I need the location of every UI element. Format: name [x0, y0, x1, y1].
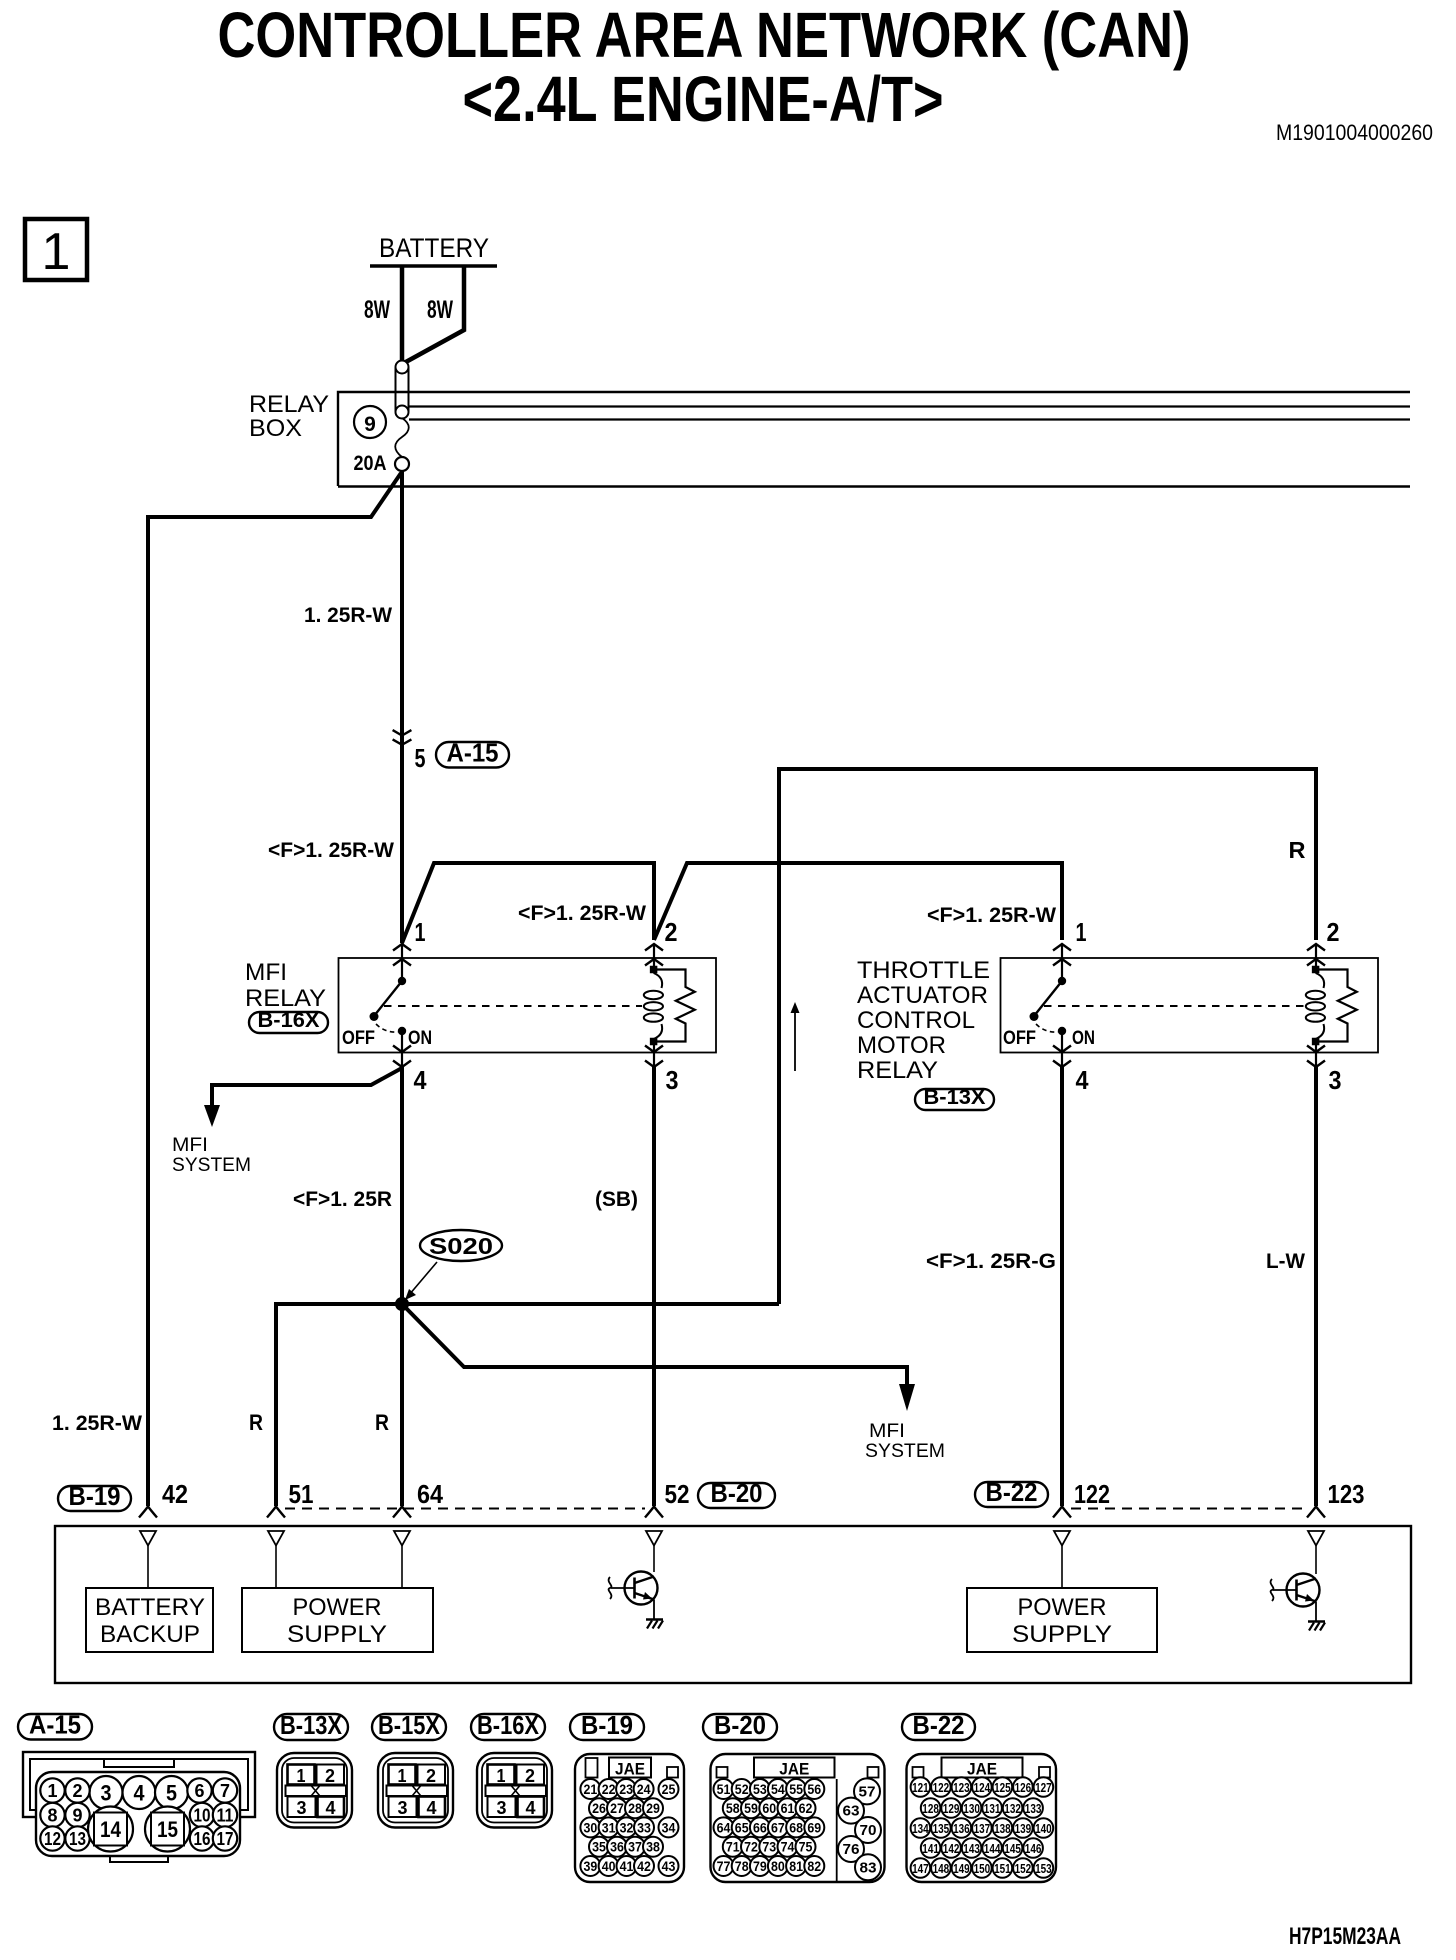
connector B-16X pin 2 cell: [517, 1765, 545, 1785]
MFI relay pin 3 terminals: [645, 1046, 663, 1053]
svg-text:60: 60: [762, 1800, 776, 1816]
connector B-19 pins 26-29: [589, 1798, 609, 1818]
wire S020 branch to MFI SYSTEM (lower): [402, 1304, 907, 1386]
ECU internal input triangle pin 52: [646, 1531, 662, 1546]
throttle relay pin 2 terminals: [1307, 944, 1325, 951]
ground symbol (Q2): [1308, 1620, 1325, 1622]
connector layout B-15X outer shell: [378, 1753, 453, 1828]
svg-text:122: 122: [933, 1780, 950, 1795]
svg-text:150: 150: [974, 1861, 991, 1876]
connector B-22 housing notches: [913, 1767, 924, 1778]
svg-text:143: 143: [963, 1841, 980, 1856]
svg-text:123: 123: [953, 1780, 970, 1795]
svg-text:10: 10: [194, 1806, 211, 1826]
MFI relay pin 1 internal lead: [401, 944, 403, 978]
connector B-15X key band: [387, 1786, 448, 1797]
svg-text:134: 134: [912, 1821, 929, 1836]
connector B-15X pin 3 cell: [389, 1797, 417, 1818]
svg-text:2: 2: [525, 1766, 535, 1786]
svg-text:B-13X: B-13X: [280, 1710, 343, 1740]
wire battery right feed: [404, 266, 464, 363]
connector layout A-15 housing: [23, 1752, 255, 1817]
svg-text:OFF: OFF: [1003, 1028, 1036, 1049]
MFI relay coil: [654, 973, 663, 988]
ECU terminal symbol pin 123: [1307, 1507, 1325, 1518]
svg-text:32: 32: [620, 1819, 634, 1835]
BATTERY BACKUP block: [86, 1588, 213, 1652]
connector layout A-15 label stadium: [18, 1714, 92, 1740]
svg-text:54: 54: [771, 1781, 785, 1797]
POWER SUPPLY block (left): [242, 1588, 433, 1652]
svg-text:79: 79: [753, 1858, 767, 1874]
wire throttle relay pin2 feed from S020 riser: [779, 769, 1316, 1304]
svg-text:MFI: MFI: [869, 1421, 905, 1442]
svg-text:3: 3: [1329, 1065, 1342, 1095]
svg-text:75: 75: [799, 1839, 813, 1855]
svg-text:2: 2: [73, 1781, 83, 1801]
svg-text:21: 21: [584, 1781, 598, 1797]
MFI SYSTEM arrowhead (lower): [899, 1384, 915, 1411]
wire throttle relay pin 3 down to ECU pin 123: [1314, 1067, 1318, 1506]
svg-text:OFF: OFF: [342, 1028, 375, 1049]
svg-text:66: 66: [753, 1819, 767, 1835]
svg-text:41: 41: [620, 1858, 634, 1874]
svg-text:52: 52: [665, 1479, 690, 1509]
throttle relay pin 3 internal lead: [1315, 1042, 1317, 1067]
svg-text:17: 17: [217, 1829, 234, 1849]
connector B-20 pins 71-75: [723, 1837, 743, 1857]
connector layout B-19 label stadium: [570, 1714, 644, 1740]
connector B-20 JAE marking: [754, 1758, 835, 1778]
svg-text:1. 25R-W: 1. 25R-W: [304, 604, 392, 627]
fuse lower terminal circle: [395, 457, 409, 471]
svg-text:1: 1: [42, 223, 71, 281]
MFI relay coil upper terminal: [650, 966, 658, 974]
svg-text:128: 128: [922, 1801, 939, 1816]
battery bus line: [370, 264, 497, 268]
wire branch to B-19 pin 42 (left drop): [148, 473, 401, 1506]
svg-text:12: 12: [44, 1829, 61, 1849]
svg-text:69: 69: [807, 1819, 821, 1835]
svg-text:70: 70: [860, 1822, 877, 1839]
svg-text:64: 64: [717, 1819, 731, 1835]
throttle relay pin 4 terminals: [1053, 1046, 1071, 1053]
svg-text:2: 2: [1327, 917, 1340, 947]
svg-text:72: 72: [744, 1839, 758, 1855]
svg-text:8W: 8W: [364, 296, 390, 324]
splice S020 pointer arrow: [409, 1262, 437, 1295]
svg-text:9: 9: [73, 1806, 83, 1826]
connector B-19 pins 30-34: [580, 1817, 600, 1837]
svg-text:77: 77: [717, 1858, 731, 1874]
svg-text:51: 51: [717, 1781, 731, 1797]
svg-text:RELAY: RELAY: [249, 391, 329, 418]
svg-text:THROTTLE: THROTTLE: [857, 957, 990, 984]
svg-text:7: 7: [220, 1781, 230, 1801]
connector B-15X pin 2 cell: [418, 1765, 446, 1785]
ECU connector dashed tie line left: [285, 1508, 645, 1510]
svg-text:<2.4L ENGINE-A/T>: <2.4L ENGINE-A/T>: [463, 63, 944, 135]
svg-text:3: 3: [398, 1798, 408, 1818]
svg-text:ON: ON: [408, 1028, 432, 1049]
splice S020 junction dot: [395, 1297, 409, 1311]
svg-text:B-16X: B-16X: [477, 1710, 540, 1740]
svg-text:38: 38: [646, 1839, 660, 1855]
svg-text:JAE: JAE: [615, 1760, 645, 1779]
connector B-20 pins 64-69: [714, 1817, 734, 1837]
svg-text:124: 124: [974, 1780, 991, 1795]
connector layout B-16X outer shell: [477, 1753, 552, 1828]
throttle relay switch travel dashed arc: [1036, 1024, 1058, 1032]
svg-text:1: 1: [415, 917, 426, 947]
connector B-16X pin 4 cell: [518, 1797, 545, 1818]
relay box bus bar lower: [409, 418, 1410, 420]
svg-text:14: 14: [100, 1817, 122, 1842]
connector A-15 pin 14: [88, 1807, 133, 1852]
connector ref B-20 stadium: [698, 1483, 775, 1508]
svg-text:141: 141: [922, 1841, 939, 1856]
ECU internal input triangle pin 42: [140, 1531, 156, 1546]
svg-text:S020: S020: [429, 1233, 493, 1259]
throttle relay pin 4 internal lead: [1061, 1031, 1063, 1067]
MFI relay coil-switch dashed link: [384, 1005, 642, 1007]
svg-text:121: 121: [912, 1780, 929, 1795]
svg-text:L-W: L-W: [1266, 1250, 1305, 1273]
svg-text:28: 28: [628, 1800, 642, 1816]
svg-text:138: 138: [994, 1821, 1011, 1836]
svg-text:137: 137: [974, 1821, 991, 1836]
throttle relay ON contact dot: [1058, 1027, 1066, 1035]
svg-text:81: 81: [789, 1858, 803, 1874]
svg-text:27: 27: [610, 1800, 624, 1816]
svg-text:BACKUP: BACKUP: [100, 1621, 200, 1648]
svg-text:8: 8: [48, 1806, 58, 1826]
svg-text:136: 136: [953, 1821, 970, 1836]
svg-text:24: 24: [637, 1781, 651, 1797]
ECU output transistor Q2 (pin 123): [1287, 1574, 1320, 1607]
svg-text:33: 33: [637, 1819, 651, 1835]
svg-text:20A: 20A: [354, 452, 387, 475]
wire MFI relay pin2 to throttle relay pin1 bus: [654, 863, 1062, 940]
throttle relay switch common dot: [1058, 977, 1066, 985]
connector B-20 pins 58-62: [723, 1798, 743, 1818]
svg-text:125: 125: [994, 1780, 1011, 1795]
wire MFI relay pin1 branch to bus y=863: [402, 863, 654, 943]
MFI relay ON contact dot: [398, 1027, 406, 1035]
connector B-19 pins 35-38: [589, 1837, 609, 1857]
connector layout B-22 shell: [907, 1754, 1057, 1882]
connector layout B-15X label stadium: [372, 1714, 446, 1740]
connector layout B-16X label stadium: [471, 1714, 545, 1740]
svg-text:130: 130: [963, 1801, 980, 1816]
svg-text:80: 80: [771, 1858, 785, 1874]
ECU internal input triangle pin 122: [1054, 1531, 1070, 1546]
svg-text:129: 129: [943, 1801, 960, 1816]
connector B-20 side pins: [854, 1778, 880, 1804]
connector layout B-20 shell: [711, 1754, 885, 1882]
connector B-20 pins 77-82: [714, 1856, 734, 1876]
svg-text:2: 2: [325, 1766, 335, 1786]
connector B-20 housing notches: [717, 1767, 728, 1778]
svg-text:64: 64: [417, 1479, 443, 1509]
connector B-22 pins 141-146: [921, 1838, 941, 1858]
svg-text:B-22: B-22: [986, 1477, 1038, 1507]
svg-text:RELAY: RELAY: [857, 1057, 938, 1084]
svg-text:53: 53: [753, 1781, 767, 1797]
connector B-16X key band: [486, 1786, 547, 1797]
throttle relay pin 2 internal lead: [1315, 944, 1317, 967]
throttle relay coil upper terminal: [1312, 966, 1320, 974]
svg-text:JAE: JAE: [967, 1760, 997, 1779]
MFI relay pin 4 terminals: [393, 1046, 411, 1053]
connector B-13X pin 3 cell: [288, 1797, 316, 1818]
connector B-22 pins 134-140: [911, 1818, 931, 1838]
svg-text:39: 39: [584, 1858, 598, 1874]
svg-text:A-15: A-15: [447, 738, 499, 768]
svg-text:SUPPLY: SUPPLY: [287, 1621, 387, 1648]
svg-text:82: 82: [807, 1858, 821, 1874]
svg-text:122: 122: [1074, 1479, 1110, 1509]
connector layout B-13X label stadium: [274, 1714, 348, 1740]
svg-text:POWER: POWER: [293, 1594, 382, 1621]
svg-text:2: 2: [426, 1766, 436, 1786]
svg-text:31: 31: [602, 1819, 616, 1835]
svg-text:<F>1. 25R-W: <F>1. 25R-W: [268, 839, 394, 862]
svg-text:POWER: POWER: [1018, 1594, 1107, 1621]
fusible link holder capsule: [395, 367, 397, 412]
connector B-22 JAE marking: [942, 1758, 1023, 1778]
svg-text:<F>1. 25R-W: <F>1. 25R-W: [518, 902, 646, 925]
connector B-22 pins 128-133: [921, 1798, 941, 1818]
svg-text:25: 25: [662, 1781, 676, 1797]
MFI relay pin 1 terminals: [393, 944, 411, 951]
svg-text:61: 61: [781, 1800, 795, 1816]
svg-text:127: 127: [1035, 1780, 1052, 1795]
svg-text:8W: 8W: [427, 296, 453, 324]
connector B-13X pin 1 cell: [288, 1765, 315, 1785]
svg-text:4: 4: [134, 1781, 146, 1806]
svg-text:133: 133: [1025, 1801, 1042, 1816]
connector B-20 cavity divider: [836, 1779, 838, 1881]
svg-text:15: 15: [157, 1817, 178, 1842]
MFI relay box: [339, 958, 717, 1053]
POWER SUPPLY block (right): [967, 1588, 1157, 1652]
throttle relay pin 3 terminals: [1307, 1046, 1325, 1053]
wire MFI relay pin 3 down to ECU pin 52: [652, 1067, 656, 1506]
svg-text:<F>1. 25R: <F>1. 25R: [293, 1188, 392, 1211]
connector B-19 pins 21-25: [580, 1779, 600, 1799]
wire MFI relay pin 4 branch to MFI SYSTEM: [212, 1068, 402, 1108]
connector B-16X pin 3 cell: [488, 1797, 516, 1818]
svg-text:40: 40: [602, 1858, 616, 1874]
svg-text:R: R: [375, 1410, 389, 1435]
svg-text:1: 1: [398, 1766, 407, 1786]
svg-text:83: 83: [860, 1859, 877, 1876]
svg-text:55: 55: [789, 1781, 803, 1797]
svg-text:42: 42: [162, 1479, 188, 1509]
svg-text:135: 135: [933, 1821, 950, 1836]
connector B-19 housing notches: [586, 1758, 598, 1778]
svg-text:3: 3: [101, 1781, 112, 1806]
svg-text:CONTROLLER AREA NETWORK (CAN): CONTROLLER AREA NETWORK (CAN): [218, 0, 1191, 71]
svg-text:42: 42: [637, 1858, 651, 1874]
wire throttle relay pin 4 down to ECU pin 122: [1060, 1067, 1064, 1506]
svg-text:ON: ON: [1072, 1028, 1095, 1049]
svg-text:CONTROL: CONTROL: [857, 1007, 975, 1034]
svg-text:4: 4: [427, 1798, 437, 1818]
svg-text:63: 63: [843, 1803, 860, 1820]
connector ref B-19 stadium: [58, 1486, 131, 1511]
ECU internal lead pin 123: [1315, 1546, 1317, 1575]
throttle relay pin 1 internal lead: [1061, 944, 1063, 978]
svg-text:57: 57: [859, 1783, 876, 1800]
svg-text:BATTERY: BATTERY: [379, 233, 489, 263]
fuse element squiggle: [395, 418, 409, 457]
MFI relay switch arm: [374, 981, 402, 1016]
svg-text:144: 144: [984, 1841, 1001, 1856]
svg-text:MFI: MFI: [245, 959, 287, 986]
svg-text:145: 145: [1004, 1841, 1021, 1856]
ECU terminal symbol pin 64: [393, 1507, 411, 1518]
svg-text:153: 153: [1035, 1861, 1052, 1876]
connector A-15 pin 15: [145, 1807, 190, 1852]
ECU connector dashed tie line right: [1071, 1508, 1307, 1510]
svg-text:26: 26: [592, 1800, 606, 1816]
svg-text:62: 62: [799, 1800, 813, 1816]
relay box outline: [338, 392, 1410, 486]
connector B-15X pin 4 cell: [419, 1797, 446, 1818]
connector ref B-22 stadium: [975, 1482, 1048, 1507]
ECU internal input triangle pin 123: [1308, 1531, 1324, 1546]
svg-text:SYSTEM: SYSTEM: [865, 1441, 945, 1462]
svg-text:SUPPLY: SUPPLY: [1012, 1621, 1112, 1648]
svg-text:B-16X: B-16X: [258, 1009, 320, 1032]
svg-text:B-22: B-22: [913, 1710, 965, 1740]
ECU transistor Q2 emitter lead: [1315, 1602, 1317, 1622]
svg-text:B-20: B-20: [711, 1478, 763, 1508]
sheet number box 1: [25, 219, 87, 280]
connector ref B-13X stadium (throttle relay): [915, 1089, 994, 1110]
current direction arrow (up): [794, 1008, 796, 1071]
svg-text:9: 9: [364, 413, 376, 436]
ECU terminal symbol pin 42: [139, 1507, 157, 1518]
svg-text:4: 4: [526, 1798, 536, 1818]
svg-text:59: 59: [744, 1800, 758, 1816]
svg-text:35: 35: [592, 1839, 606, 1855]
connector B-13X key band: [286, 1786, 347, 1797]
svg-text:34: 34: [662, 1819, 676, 1835]
svg-text:1. 25R-W: 1. 25R-W: [52, 1412, 142, 1435]
connector layout B-13X outer shell: [277, 1753, 352, 1828]
svg-text:SYSTEM: SYSTEM: [172, 1155, 251, 1176]
svg-text:3: 3: [666, 1065, 679, 1095]
connector B-13X pin 2 cell: [317, 1765, 345, 1785]
svg-text:146: 146: [1025, 1841, 1042, 1856]
connector B-20 pins 51-56: [714, 1779, 734, 1799]
svg-text:71: 71: [726, 1839, 740, 1855]
relay box bus bar upper: [409, 405, 1410, 407]
connector B-16X pin 1 cell: [488, 1765, 515, 1785]
svg-text:JAE: JAE: [779, 1760, 809, 1779]
inline connector symbol on feed wire: [393, 730, 412, 735]
ECU (engine control unit) box: [55, 1526, 1411, 1683]
svg-text:139: 139: [1015, 1821, 1032, 1836]
connector A-15 small pins: [40, 1778, 64, 1802]
svg-text:65: 65: [735, 1819, 749, 1835]
MFI relay coil lower terminal: [650, 1038, 658, 1046]
connector B-19 pins 39-43: [580, 1856, 600, 1876]
connector ref A-15 stadium: [436, 742, 509, 768]
svg-text:(SB): (SB): [595, 1188, 638, 1211]
ground symbol (Q1): [646, 1618, 663, 1620]
ECU terminal symbol pin 52: [645, 1507, 663, 1518]
ECU internal lead pin 51: [275, 1546, 277, 1589]
svg-text:147: 147: [912, 1861, 929, 1876]
MFI relay pin 3 internal lead: [653, 1042, 655, 1067]
svg-text:M1901004000260: M1901004000260: [1276, 120, 1433, 145]
connector B-15X pin 1 cell: [389, 1765, 416, 1785]
ECU internal input triangle pin 51: [268, 1531, 284, 1546]
svg-text:67: 67: [771, 1819, 785, 1835]
MFI relay pin 2 internal lead: [653, 944, 655, 967]
svg-text:4: 4: [1076, 1065, 1089, 1095]
connector B-13X pin 4 cell: [318, 1797, 345, 1818]
ECU output transistor Q1 (pin 52): [625, 1572, 658, 1605]
svg-text:132: 132: [1004, 1801, 1021, 1816]
MFI relay switch travel dashed arc: [376, 1024, 398, 1032]
svg-text:22: 22: [602, 1781, 616, 1797]
svg-text:140: 140: [1035, 1821, 1052, 1836]
ECU internal lead pin 64: [401, 1546, 403, 1589]
svg-text:MFI: MFI: [172, 1135, 208, 1156]
svg-text:H7P15M23AA: H7P15M23AA: [1289, 1923, 1401, 1950]
wire S020 horizontal run to pin 51 drop: [276, 1304, 779, 1506]
svg-text:R: R: [1289, 837, 1306, 863]
svg-text:B-19: B-19: [69, 1481, 121, 1511]
svg-text:58: 58: [726, 1800, 740, 1816]
svg-text:78: 78: [735, 1858, 749, 1874]
svg-text:126: 126: [1015, 1780, 1032, 1795]
svg-text:43: 43: [662, 1858, 676, 1874]
svg-text:16: 16: [194, 1829, 211, 1849]
svg-text:36: 36: [610, 1839, 624, 1855]
svg-text:68: 68: [789, 1819, 803, 1835]
throttle relay switch arm: [1034, 981, 1062, 1016]
svg-text:152: 152: [1015, 1861, 1032, 1876]
svg-text:30: 30: [584, 1819, 598, 1835]
svg-text:B-19: B-19: [581, 1710, 633, 1740]
svg-text:3: 3: [297, 1798, 307, 1818]
wire battery left feed: [400, 266, 405, 362]
svg-text:A-15: A-15: [29, 1710, 81, 1740]
MFI relay pin 4 internal lead: [401, 1031, 403, 1067]
MFI relay coil parallel resistor: [657, 970, 695, 1042]
svg-text:<F>1. 25R-W: <F>1. 25R-W: [927, 904, 1056, 927]
connector A-15 large pins 3 4 5: [90, 1776, 123, 1809]
svg-text:131: 131: [984, 1801, 1001, 1816]
svg-text:ACTUATOR: ACTUATOR: [857, 982, 988, 1009]
throttle relay coil lower terminal: [1312, 1038, 1320, 1046]
svg-text:3: 3: [497, 1798, 507, 1818]
svg-text:2: 2: [665, 917, 678, 947]
svg-text:RELAY: RELAY: [245, 985, 326, 1012]
svg-text:29: 29: [646, 1800, 660, 1816]
svg-text:BATTERY: BATTERY: [95, 1594, 205, 1621]
svg-text:151: 151: [994, 1861, 1011, 1876]
svg-text:B-20: B-20: [714, 1710, 766, 1740]
svg-text:74: 74: [781, 1839, 795, 1855]
svg-text:6: 6: [195, 1781, 205, 1801]
